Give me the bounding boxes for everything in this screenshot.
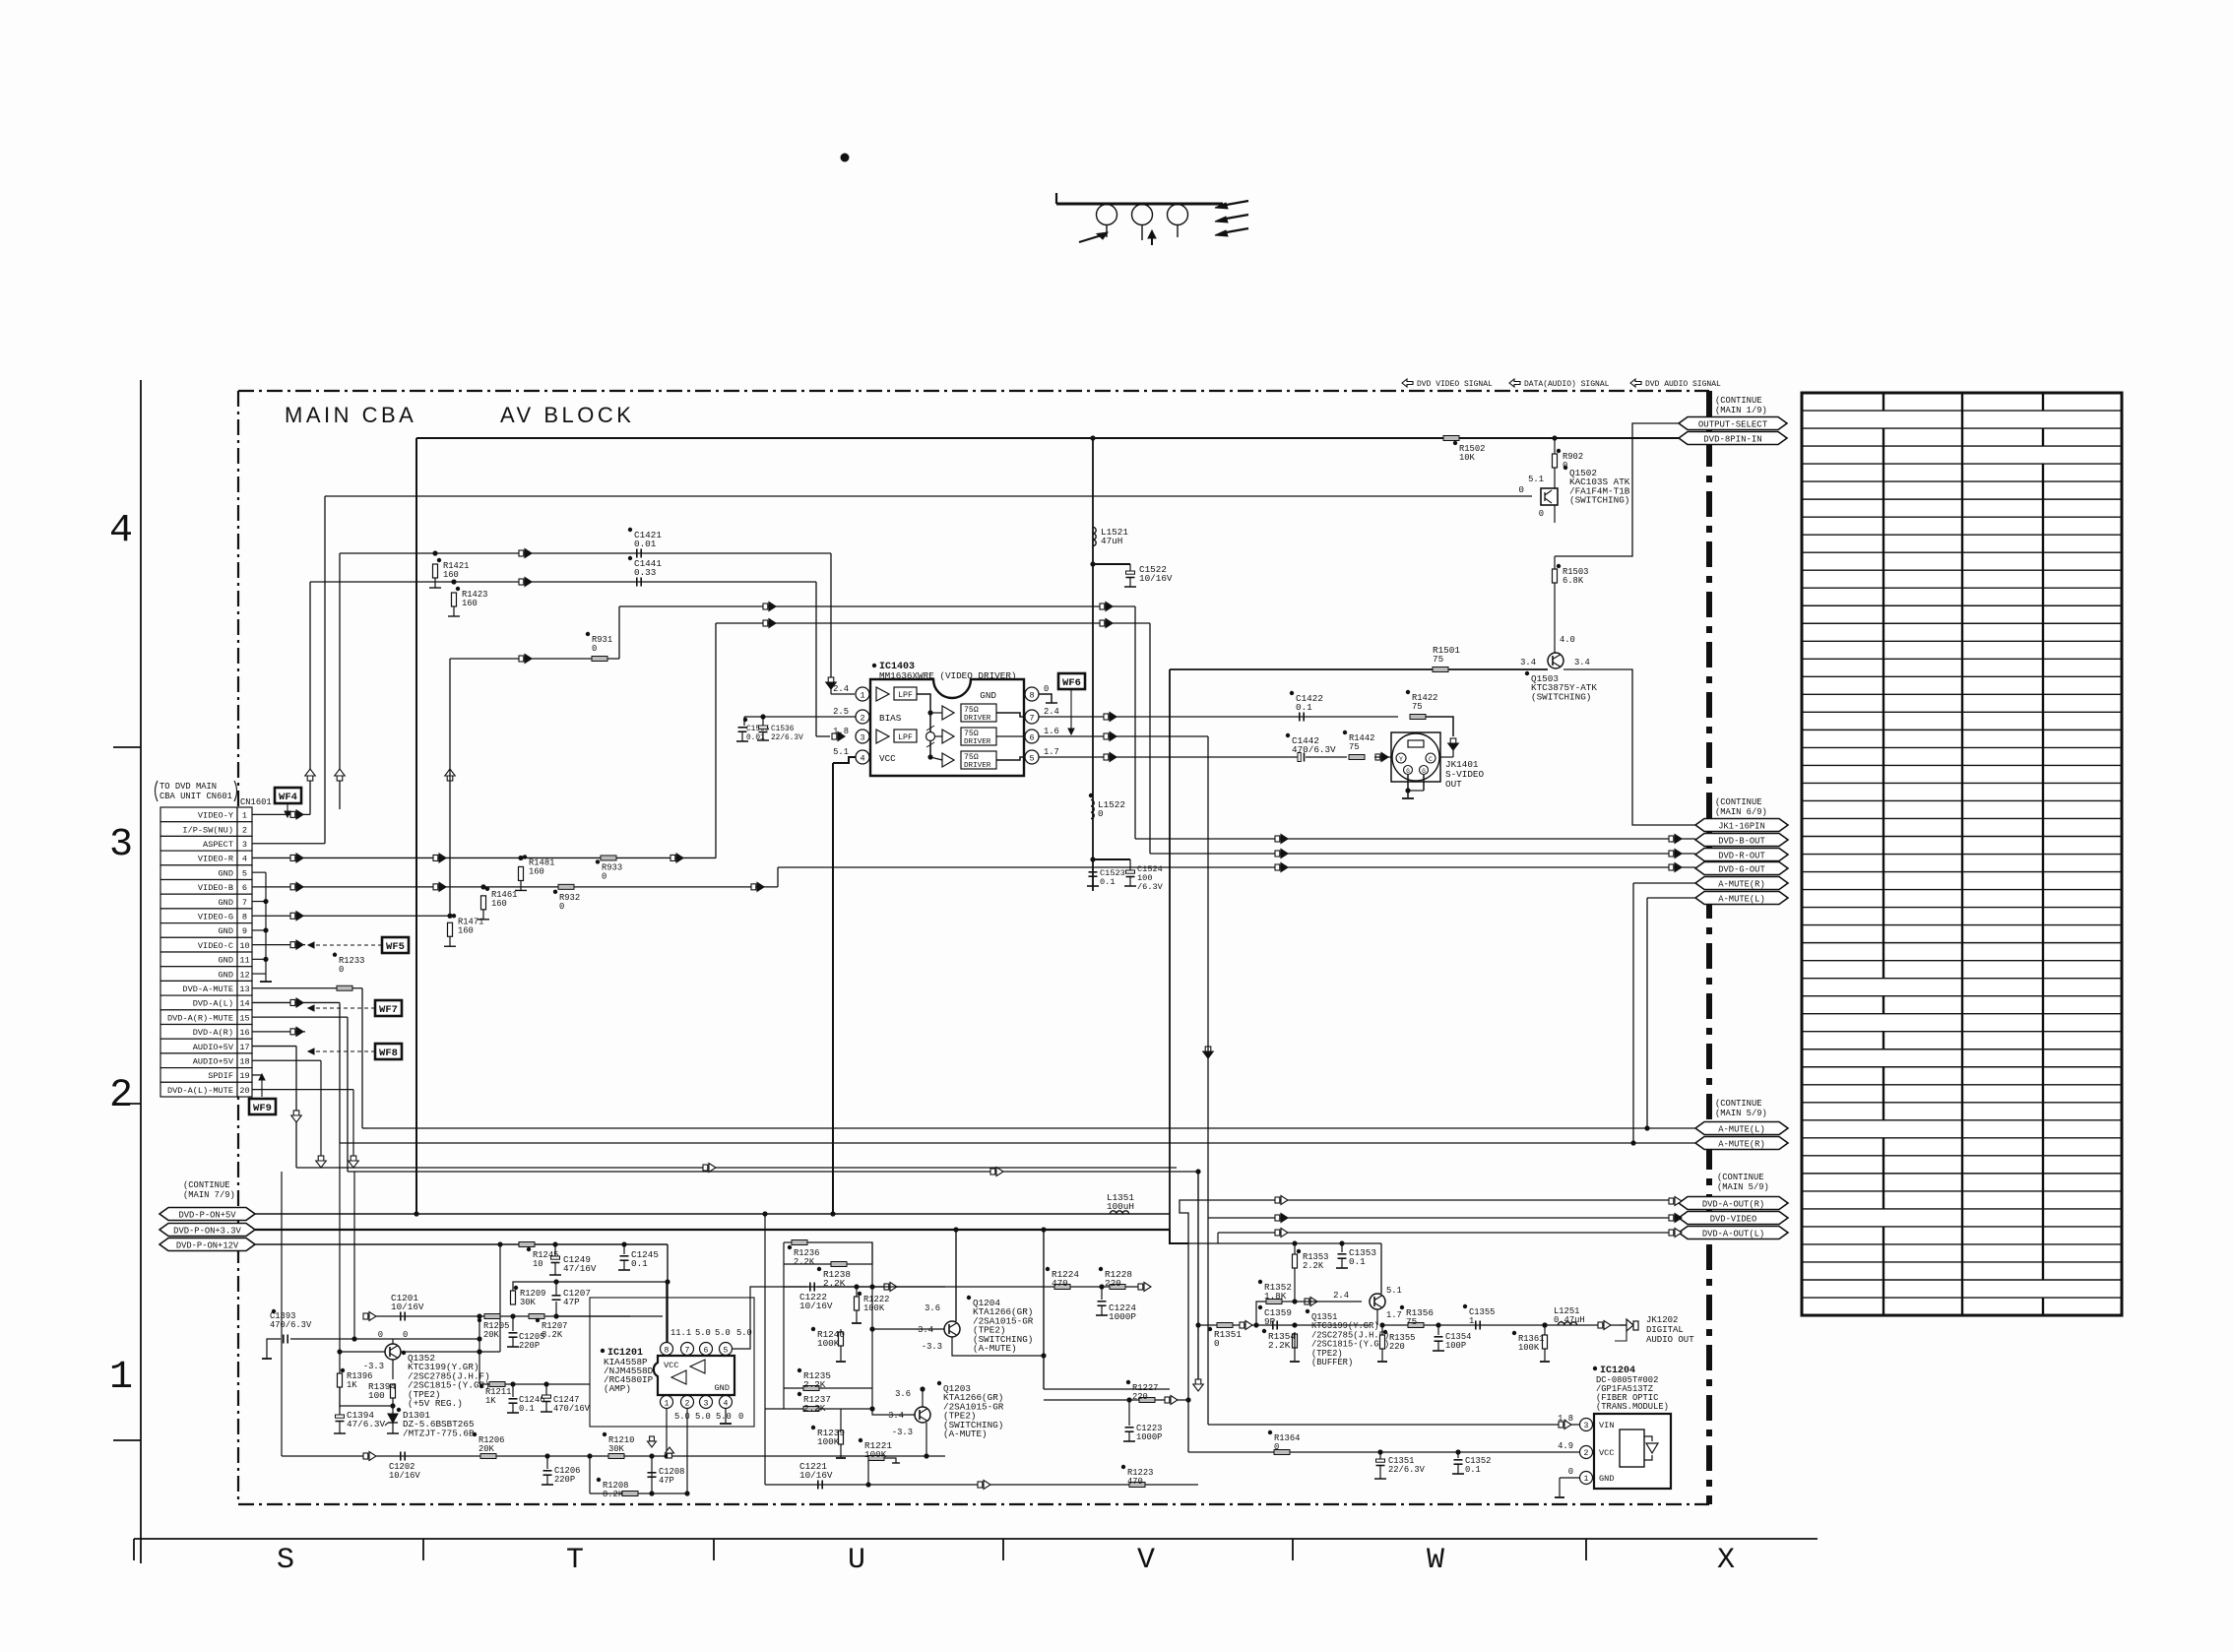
svg-text:G: G (1406, 768, 1410, 775)
svg-text:0: 0 (1568, 1467, 1573, 1477)
svg-text:DVD-A-MUTE: DVD-A-MUTE (182, 985, 233, 994)
svg-text:16: 16 (239, 1028, 249, 1038)
resistor R931 (592, 657, 607, 662)
svg-text:0: 0 (738, 1412, 743, 1422)
svg-text:20K: 20K (483, 1330, 500, 1340)
svg-text:12: 12 (239, 970, 249, 980)
svg-text:75: 75 (1433, 654, 1443, 665)
svg-text:17: 17 (239, 1043, 249, 1052)
connector arrow R1228 (1138, 1284, 1143, 1290)
svg-text:0.01: 0.01 (746, 734, 765, 742)
svg-text:13: 13 (239, 985, 249, 994)
connector JK1202 DIGITAL AUDIO OUT (1620, 1324, 1627, 1326)
wire R1209/C1207 top rail (513, 1282, 668, 1291)
wire R1503 column (1554, 556, 1556, 653)
wire LPF1 to mixer column (917, 694, 930, 757)
svg-text:75Ω: 75Ω (964, 753, 979, 762)
svg-text:WF5: WF5 (386, 941, 405, 953)
svg-text:VIDEO-C: VIDEO-C (198, 941, 233, 951)
wire R1227 left stub (1044, 1399, 1083, 1401)
svg-text:S: S (277, 1544, 294, 1577)
wire pin20 riser x359 (352, 1090, 354, 1168)
icon triple arrows (1221, 201, 1248, 206)
wire drop x1153 (1134, 606, 1136, 839)
svg-text:1: 1 (665, 1399, 670, 1408)
wire R1208 row y1517 (590, 1493, 687, 1494)
resistor R1238 (831, 1262, 847, 1267)
capacitor C1205 (512, 1316, 514, 1331)
svg-text:0: 0 (403, 1330, 408, 1340)
svg-text:VCC: VCC (664, 1361, 678, 1370)
wire R931 net y669 (450, 658, 619, 660)
wire drop x1168 (1149, 623, 1151, 854)
svg-text:5.0: 5.0 (716, 1412, 732, 1422)
ic IC1201 pin 3 (700, 1396, 713, 1409)
connector symbol pin6 right (751, 884, 756, 890)
node junction R1461 (480, 884, 485, 889)
svg-text:8: 8 (1029, 690, 1034, 700)
transistor Q1351 (1370, 1294, 1385, 1309)
svg-text:I/P-SW(NU): I/P-SW(NU) (182, 825, 233, 835)
svg-text:BIAS: BIAS (879, 713, 902, 724)
svg-text:VIDEO-Y: VIDEO-Y (198, 811, 233, 821)
svg-text:(AMP): (AMP) (604, 1383, 631, 1394)
resistor R1422 (1410, 715, 1426, 720)
svg-text:1: 1 (1584, 1475, 1589, 1484)
ic IC1403 pin 5 (1025, 750, 1039, 764)
net flag DVD-A-OUT(R) (1679, 1197, 1788, 1210)
svg-text:DVD-A-OUT(R): DVD-A-OUT(R) (1702, 1199, 1764, 1209)
waveform flag WF5 (382, 937, 409, 953)
svg-text:220P: 220P (519, 1341, 540, 1351)
wire pin19 SPDIF (252, 1074, 262, 1076)
inductor L1351 (1110, 1211, 1128, 1214)
ic IC1403 pin 8 (1025, 687, 1039, 701)
block border left dash-dot (237, 391, 239, 1504)
wire pin5/7/9/11/12 GND bus (252, 871, 266, 873)
wire net y616 to DVD-B (619, 605, 1135, 607)
node junction R1421 (432, 550, 437, 555)
svg-text:0: 0 (602, 872, 606, 882)
svg-text:1.8K: 1.8K (1264, 1291, 1287, 1302)
svg-text:0.47uH: 0.47uH (1554, 1315, 1585, 1325)
resistor R1236 (792, 1240, 807, 1245)
wire DVD-VIDEO out (1208, 1217, 1679, 1219)
svg-text:DVD-B-OUT: DVD-B-OUT (1718, 836, 1765, 846)
frame bottom tick x1611 (1585, 1539, 1587, 1560)
connector symbol y591 (519, 579, 524, 585)
svg-text:5.0: 5.0 (695, 1328, 711, 1338)
svg-text:2.4: 2.4 (1333, 1291, 1349, 1301)
block border right thick dash-dot (1706, 391, 1712, 1504)
svg-text:1.7: 1.7 (1044, 747, 1059, 757)
wire audio mute run y1186 (296, 1167, 1177, 1169)
resistor R1207 (529, 1314, 544, 1319)
svg-text:DVD-G-OUT: DVD-G-OUT (1718, 864, 1765, 874)
wire DVD-A-OUT(L) run (1218, 1232, 1679, 1234)
wire pin14 riser x345 (339, 1002, 341, 1143)
svg-text:Y: Y (1399, 756, 1403, 763)
capacitor C1422 (1299, 713, 1301, 722)
wire pin18 riser x326 (320, 1060, 322, 1168)
svg-text:DVD-A(R)-MUTE: DVD-A(R)-MUTE (167, 1013, 233, 1023)
wire pin13 riser x368 (361, 988, 363, 1128)
svg-text:100K: 100K (1518, 1343, 1540, 1353)
connector CN1601 body (160, 807, 237, 822)
wire Q1203 emitter (925, 1423, 927, 1456)
svg-text:DIGITAL: DIGITAL (1646, 1325, 1684, 1335)
wire VIDEO-R net y633 (716, 622, 1150, 624)
svg-text:160: 160 (491, 899, 507, 909)
svg-text:10/16V: 10/16V (799, 1470, 833, 1481)
wire x345 riser audio (339, 1143, 341, 1408)
power flag DVD-P-ON+5V (159, 1208, 255, 1221)
node junction R1471 (447, 914, 452, 919)
resistor R1222 (855, 1297, 860, 1310)
svg-text:30K: 30K (608, 1444, 625, 1454)
net flag A-MUTE(R) (1695, 877, 1788, 890)
wire C1393 rail y1360 (267, 1339, 281, 1359)
connector JK1401 S-VIDEO OUT body (1391, 732, 1440, 782)
ic IC1201 pin 6 (700, 1343, 713, 1356)
resistor R1396 (338, 1373, 343, 1387)
svg-text:9: 9 (242, 926, 247, 936)
svg-text:15: 15 (239, 1013, 249, 1023)
svg-text:100K: 100K (817, 1338, 840, 1349)
wire power bus x1110 (1092, 438, 1094, 891)
resistor R1503 (1553, 569, 1558, 583)
svg-text:6: 6 (704, 1346, 709, 1355)
ic IC1201 pin 7 (681, 1343, 694, 1356)
svg-text:DVD-A(L): DVD-A(L) (193, 999, 233, 1009)
resistor R1233 (337, 985, 352, 990)
wire column x1217 (1197, 1172, 1199, 1385)
amp triangle pin3 (876, 730, 889, 743)
connector arrow DVD-VIDEO right (1669, 1215, 1674, 1221)
wire pin5 output y769 (1039, 756, 1300, 758)
wire Q1203 base (872, 1388, 915, 1415)
wire pin3 ASPECT (252, 843, 325, 845)
svg-text:22/6.3V: 22/6.3V (1388, 1465, 1426, 1475)
wire video-Y net y562 (340, 552, 831, 554)
waveform flag WF9 arrow (261, 1077, 263, 1097)
svg-text:0: 0 (1539, 509, 1544, 519)
wire pin8 VIDEO-G (252, 915, 450, 917)
wire OUTPUT-SELECT route (1555, 423, 1679, 556)
svg-text:WF9: WF9 (253, 1103, 272, 1114)
mixer node circle (926, 732, 935, 741)
wire riser x315 (309, 582, 311, 814)
svg-text:CBA UNIT CN601: CBA UNIT CN601 (159, 792, 232, 801)
svg-text:VCC: VCC (879, 753, 896, 764)
capacitor C1351 (1377, 1449, 1382, 1454)
resistor R1228 (1099, 1284, 1104, 1289)
driver amp A (942, 706, 954, 720)
wire +12V to IC1201 VCC (667, 1244, 669, 1342)
transistor Q1352 (385, 1344, 401, 1360)
svg-text:470/16V: 470/16V (553, 1404, 591, 1414)
svg-text:(CONTINUE: (CONTINUE (1715, 1099, 1762, 1109)
op-amp triangle A (690, 1360, 705, 1373)
ic IC1403 pin 2 (856, 710, 869, 724)
connector into JK1401 (1375, 754, 1380, 760)
ic IC1201 labels (601, 1349, 605, 1353)
svg-text:5: 5 (1029, 753, 1034, 763)
svg-text:/6.3V: /6.3V (1137, 882, 1164, 892)
svg-text:WF7: WF7 (379, 1004, 398, 1016)
svg-text:C1536: C1536 (771, 726, 795, 733)
wire video-Y drop x844 (830, 553, 832, 677)
svg-text:7: 7 (685, 1346, 690, 1355)
svg-text:4: 4 (860, 753, 864, 763)
svg-text:(+5V REG.): (+5V REG.) (408, 1398, 463, 1409)
wire R1236/R1238 loop (807, 1242, 872, 1264)
svg-text:160: 160 (443, 570, 459, 580)
svg-text:3.4: 3.4 (1520, 658, 1536, 667)
connector JK1401 pin G1 (1404, 766, 1413, 775)
wire video net y591 (310, 581, 816, 583)
svg-text:2: 2 (1584, 1449, 1589, 1458)
wire R1211 row y1406 (479, 1383, 590, 1385)
resistor R1206 (480, 1454, 496, 1459)
capacitor C1202 (400, 1452, 402, 1461)
wire A-MUTE(R) upper (1633, 882, 1695, 884)
capacitor C1441 (636, 578, 638, 587)
ic IC1204 labels (1593, 1366, 1597, 1370)
wire DVD-8PIN-IN net y445 (416, 437, 1679, 439)
svg-text:3.6: 3.6 (895, 1389, 911, 1399)
svg-text:(CONTINUE: (CONTINUE (1715, 797, 1762, 807)
waveform flag WF5 arrow (311, 944, 382, 946)
svg-text:47P: 47P (563, 1297, 580, 1307)
svg-text:10/16V: 10/16V (799, 1301, 833, 1311)
wire IC1204 VCC run (1188, 1451, 1579, 1453)
capacitor C1206 (544, 1453, 549, 1458)
net flag DVD-B-OUT (1695, 834, 1788, 847)
svg-text:0.1: 0.1 (1349, 1256, 1366, 1267)
wire Q1351 emitter to output (1376, 1309, 1378, 1325)
svg-text:4: 4 (724, 1399, 729, 1408)
svg-text:220: 220 (1105, 1278, 1121, 1289)
wire IC1204 VIN run (1208, 1424, 1579, 1426)
svg-text:10/16V: 10/16V (391, 1302, 424, 1312)
capacitor C1523 (1090, 857, 1095, 861)
wire buffer left column x1207 (1187, 1243, 1189, 1452)
wire C1201 input run y1337 (367, 1315, 663, 1317)
wire Q1203 collector (922, 1389, 924, 1407)
connector JK1401 pin C (1426, 753, 1435, 763)
svg-text:CN1601: CN1601 (240, 797, 272, 807)
wire x1060 column (1043, 1230, 1045, 1389)
driver 75ohm B (961, 728, 996, 745)
resistor R1356 (1408, 1323, 1424, 1328)
svg-text:3.4: 3.4 (918, 1325, 933, 1335)
svg-text:GND: GND (219, 898, 233, 908)
net flag DVD-VIDEO (1679, 1212, 1788, 1225)
legend DVD VIDEO SIGNAL / DATA(AUDIO) SIGNAL / DVD AUDIO SIGNAL (1402, 379, 1413, 387)
svg-text:3: 3 (1584, 1422, 1589, 1430)
svg-text:WF8: WF8 (379, 1048, 398, 1059)
resistor R1209 (511, 1291, 516, 1304)
resistor R1354 (1292, 1322, 1297, 1327)
svg-text:DVD AUDIO SIGNAL: DVD AUDIO SIGNAL (1645, 380, 1721, 389)
filter LPF 2 (894, 730, 917, 742)
svg-text:470/6.3V: 470/6.3V (270, 1320, 312, 1330)
svg-text:A-MUTE(R): A-MUTE(R) (1718, 1139, 1765, 1149)
resistor R1224 (1054, 1285, 1070, 1290)
svg-text:4.9: 4.9 (1558, 1441, 1573, 1451)
svg-text:2: 2 (242, 825, 247, 835)
svg-text:T: T (566, 1544, 584, 1577)
svg-text:0.1: 0.1 (1465, 1465, 1481, 1475)
svg-text:X: X (1717, 1544, 1735, 1577)
svg-text:75: 75 (1406, 1316, 1417, 1327)
svg-text:(MAIN 1/9): (MAIN 1/9) (1715, 406, 1767, 415)
sub-circuit boundary box IC1201 (590, 1298, 754, 1427)
svg-text:8: 8 (665, 1346, 670, 1355)
icon tray mechanism (1055, 193, 1057, 204)
svg-text:22/6.3V: 22/6.3V (771, 734, 803, 742)
svg-text:470: 470 (1127, 1477, 1143, 1487)
ic IC1204 body (1594, 1414, 1671, 1489)
wire Q1352 collector run (401, 1351, 500, 1353)
svg-text:0: 0 (339, 965, 344, 975)
svg-text:10/16V: 10/16V (1139, 573, 1173, 584)
svg-text:(MAIN 6/9): (MAIN 6/9) (1715, 807, 1767, 817)
wire pin15 DVD-A(R)-MUTE (252, 1016, 348, 1018)
resistor R1471 (448, 922, 453, 936)
svg-text:3: 3 (242, 840, 247, 850)
wire C1442 to R1442 (1306, 756, 1347, 758)
waveform flag WF6 arrow (1070, 689, 1072, 731)
ic IC1204 optical element (1620, 1430, 1644, 1467)
connector arrow DVD-A-OUT(R) right (1669, 1198, 1674, 1204)
svg-text:47/6.3V: 47/6.3V (347, 1419, 385, 1430)
svg-text:GND: GND (219, 926, 233, 936)
svg-text:(SWITCHING): (SWITCHING) (1569, 495, 1629, 506)
net flag DVD-G-OUT (1695, 862, 1788, 875)
svg-text:(A-MUTE): (A-MUTE) (973, 1343, 1017, 1354)
capacitor C1393 (283, 1335, 285, 1344)
resistor R1502 (1443, 436, 1459, 441)
svg-text:1: 1 (860, 690, 864, 700)
waveform flag WF7 arrow (311, 1007, 375, 1009)
svg-text:DRIVER: DRIVER (964, 715, 991, 723)
node junction R1209 col (510, 1313, 515, 1318)
capacitor C1394 (339, 1406, 341, 1415)
svg-text:0: 0 (378, 1330, 383, 1340)
svg-text:2: 2 (109, 1074, 133, 1118)
svg-text:7: 7 (242, 898, 247, 908)
svg-text:3: 3 (704, 1399, 709, 1408)
svg-text:0: 0 (559, 902, 564, 912)
wire riser x457 (449, 659, 451, 916)
svg-text:20: 20 (239, 1086, 249, 1096)
node junction R1423 (451, 579, 456, 584)
wire pins 1/2 to bottom (666, 1409, 668, 1456)
svg-text:4: 4 (242, 855, 247, 864)
diode D1301 zener (392, 1406, 394, 1414)
driver amp C (942, 753, 954, 767)
power flag DVD-P-ON+12V (159, 1239, 255, 1251)
block border bottom dash-dot (238, 1503, 1709, 1505)
svg-text:1.7: 1.7 (1386, 1310, 1402, 1320)
flag arrow up x345 (337, 775, 343, 781)
resistor R1481 (519, 866, 524, 880)
svg-text:19: 19 (239, 1071, 249, 1081)
wire R1351 input y1346 (1198, 1324, 1370, 1326)
amp triangle pin1 (876, 687, 889, 701)
wire Q1204 collector (955, 1230, 957, 1321)
svg-text:11: 11 (239, 956, 249, 966)
wire A-MUTE(L) lower run (369, 1127, 1695, 1129)
ic IC1403 pin 6 (1025, 730, 1039, 743)
svg-text:0: 0 (1274, 1442, 1279, 1452)
ic IC1403 pin 4 (856, 750, 869, 764)
transistor Q1203 (915, 1407, 930, 1423)
svg-text:GND: GND (1599, 1474, 1614, 1484)
svg-text:100K: 100K (817, 1436, 840, 1447)
frame bottom tick x430 (422, 1539, 424, 1560)
svg-text:1K: 1K (347, 1380, 357, 1390)
node junction R902 top (1552, 435, 1557, 440)
wire pin16 DVD-A(R) (252, 1031, 305, 1033)
wire R1224 run y1307 (952, 1286, 1142, 1288)
wire right audio column x796 (783, 1242, 785, 1409)
wire IC1403 pin8 gnd (1039, 694, 1052, 703)
svg-text:9P: 9P (1264, 1316, 1276, 1327)
svg-text:2.2K: 2.2K (1303, 1261, 1324, 1271)
wire pin4 VIDEO-R (252, 857, 716, 858)
svg-text:100uH: 100uH (1107, 1201, 1134, 1212)
svg-text:TO DVD MAIN: TO DVD MAIN (159, 782, 217, 792)
svg-text:3: 3 (109, 823, 133, 867)
ic IC1201 pin 8 (661, 1343, 673, 1356)
ic IC1403 pin 1 (856, 687, 869, 701)
svg-text:220P: 220P (554, 1475, 575, 1485)
transistor Q1204 (944, 1321, 960, 1337)
capacitor C1524 (1093, 858, 1130, 860)
inductor L1521 (1093, 527, 1096, 545)
svg-text:0.1: 0.1 (519, 1404, 535, 1414)
flag arrow up x727 area (447, 775, 453, 781)
frame bottom tick x725 (713, 1539, 715, 1560)
waveform flag WF9 (249, 1099, 276, 1114)
svg-text:0.1: 0.1 (1296, 702, 1312, 713)
net flag A-MUTE(R) lower (1695, 1137, 1788, 1150)
driver 75ohm A (961, 704, 996, 722)
svg-text:14: 14 (239, 999, 249, 1009)
wire to IC1201 pin area (556, 1315, 630, 1317)
svg-text:A-MUTE(L): A-MUTE(L) (1718, 1124, 1765, 1134)
frame axis tick y759 (113, 746, 141, 748)
waveform flag WF8 arrow (311, 1050, 375, 1052)
wire x286 riser (281, 1172, 283, 1456)
connector arrow y1508 (978, 1482, 983, 1488)
svg-text:2.4: 2.4 (833, 684, 849, 694)
svg-text:(CONTINUE: (CONTINUE (1715, 396, 1762, 406)
wire pin18 AUDIO+5V (252, 1059, 321, 1061)
wire C1221 run y1508 (765, 1484, 1198, 1486)
svg-text:1.8: 1.8 (833, 727, 849, 736)
wire IC1201 pin4 gnd (725, 1409, 727, 1423)
svg-text:AUDIO+5V: AUDIO+5V (193, 1057, 234, 1067)
capacitor C1223 (1128, 1400, 1130, 1426)
wire right audio column x777 (764, 1214, 766, 1485)
svg-text:3.4: 3.4 (888, 1411, 904, 1421)
svg-text:470/6.3V: 470/6.3V (1292, 744, 1336, 755)
connector symbol y616 b (1100, 604, 1105, 609)
